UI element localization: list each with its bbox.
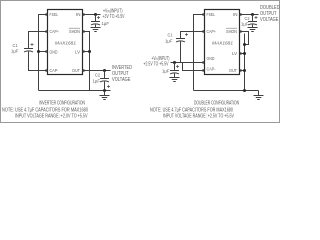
ground C2 (doubler): [248, 28, 258, 32]
svg-text:GND: GND: [207, 56, 216, 61]
junction FSEL/GND node: [37, 50, 40, 53]
svg-text:C2: C2: [95, 73, 100, 78]
wire SHDN down rail: [83, 32, 90, 91]
svg-text:FSEL: FSEL: [50, 12, 59, 17]
wire LV to rail: [83, 51, 90, 53]
svg-text:INPUT VOLTAGE RANGE: +2.0V TO: INPUT VOLTAGE RANGE: +2.0V TO +5.5V: [15, 114, 88, 120]
svg-text:1µF: 1µF: [162, 69, 170, 74]
wire SHDN jog (doubler): [240, 32, 249, 45]
svg-text:1µF: 1µF: [11, 49, 19, 54]
svg-text:SHDN: SHDN: [69, 29, 80, 34]
svg-text:+3V TO +5.5V: +3V TO +5.5V: [103, 14, 125, 20]
svg-text:DOUBLER CONFIGURATION: DOUBLER CONFIGURATION: [194, 101, 239, 107]
wire GND pin to rail: [39, 51, 48, 53]
wire CAP+ down to C1 (doubler): [181, 32, 205, 39]
svg-text:SHDN: SHDN: [226, 29, 237, 34]
svg-text:CAP-: CAP-: [207, 67, 216, 72]
wire CAP+ down to C1: [29, 32, 48, 49]
svg-text:CAP+: CAP+: [50, 29, 60, 34]
svg-text:INVERTER CONFIGURATION: INVERTER CONFIGURATION: [39, 101, 85, 107]
junction doubled output node: [251, 13, 254, 16]
wire C1 to CAP-: [29, 52, 48, 71]
svg-text:VOLTAGE: VOLTAGE: [112, 77, 131, 83]
wire rail SHDN/LV/OUT to bus (doubler): [244, 34, 246, 91]
junction SHDN/LV node: [88, 50, 91, 53]
capacitor C2 1uF output: [104, 71, 106, 79]
junction LV node (doubler): [243, 52, 246, 55]
capacitor C1 1uF (doubler): [176, 38, 185, 40]
wire FSEL to ground rail (doubler): [194, 15, 205, 91]
IC U2 MAX1681 box: [205, 10, 240, 75]
svg-text:FSEL: FSEL: [207, 12, 216, 17]
junction OUT node (doubler): [243, 69, 246, 72]
C2 plus sign (at ground side): [107, 85, 110, 88]
capacitor input bypass 1uF (doubler): [174, 63, 176, 71]
svg-text:IN: IN: [233, 12, 238, 17]
svg-text:C1: C1: [13, 43, 18, 48]
svg-text:MAX1681: MAX1681: [55, 41, 76, 46]
svg-text:1µF: 1µF: [241, 22, 249, 27]
page border frame: [1, 1, 280, 123]
svg-text:GND: GND: [50, 50, 59, 55]
wire input to GND pin: [171, 62, 205, 64]
ground input bypass (doubler): [170, 78, 180, 82]
svg-text:CAP-: CAP-: [50, 68, 59, 73]
svg-text:OUT: OUT: [229, 68, 237, 73]
svg-text:1µF: 1µF: [93, 79, 101, 84]
junction input node (doubler): [173, 61, 176, 64]
junction input node: [94, 13, 97, 16]
wire FSEL to ground rail: [39, 15, 48, 91]
wire IN to doubled output node: [240, 14, 259, 16]
svg-text:OUT: OUT: [72, 68, 80, 73]
wire LV stub (doubler): [240, 53, 245, 55]
wire OUT to output node: [83, 70, 111, 72]
svg-text:+2.5V TO +5.5V: +2.5V TO +5.5V: [144, 62, 169, 68]
capacitor C2 1uF (doubler): [252, 15, 254, 22]
ground input bypass: [91, 28, 101, 32]
svg-text:C1: C1: [168, 33, 173, 38]
wire ground bus (inverter): [39, 90, 111, 92]
wire C1 bottom to input node: [180, 42, 182, 63]
svg-text:C2: C2: [245, 16, 250, 21]
svg-text:CAP+: CAP+: [207, 29, 217, 34]
wire IN to input node: [83, 14, 101, 16]
IC U1 MAX1681 box: [48, 10, 83, 75]
junction SHDN node (doubler): [243, 43, 246, 46]
junction output node: [103, 69, 106, 72]
junction bus node (doubler): [243, 89, 246, 92]
svg-text:INPUT VOLTAGE RANGE: +2.5V TO: INPUT VOLTAGE RANGE: +2.5V TO +5.5V: [163, 114, 234, 120]
svg-text:MAX1681: MAX1681: [212, 41, 233, 46]
wire ground bus (doubler): [194, 90, 259, 92]
junction bus/C2/ground node: [103, 89, 106, 92]
svg-text:1µF: 1µF: [102, 21, 110, 26]
svg-text:VOLTAGE: VOLTAGE: [260, 17, 279, 23]
svg-text:1µF: 1µF: [165, 39, 173, 44]
wire OUT stub (doubler): [240, 70, 245, 72]
capacitor C1 1uF: [24, 48, 33, 50]
wire input branch to CAP-: [183, 63, 205, 71]
capacitor input bypass 1uF: [95, 15, 97, 22]
svg-text:IN: IN: [76, 12, 81, 17]
ground main (inverter): [104, 91, 106, 96]
ground main (doubler): [258, 91, 260, 96]
